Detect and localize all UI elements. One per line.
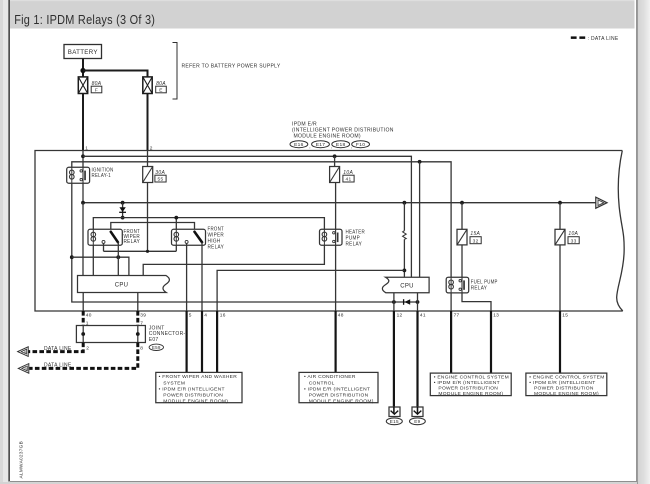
wire bus A to 10A fuse 41: [334, 156, 336, 166]
arrow output to next page: [596, 197, 607, 208]
svg-text:MODULE ENGINE ROOM): MODULE ENGINE ROOM): [438, 391, 503, 397]
svg-text:FUEL PUMP: FUEL PUMP: [471, 279, 498, 285]
svg-text:• AIR CONDITIONER: • AIR CONDITIONER: [304, 374, 356, 380]
svg-text:33: 33: [571, 238, 577, 244]
svg-text:E17: E17: [316, 142, 326, 148]
svg-text:POWER DISTRIBUTION: POWER DISTRIBUTION: [163, 392, 223, 398]
pin 5: [189, 313, 192, 319]
pin 13: [493, 313, 499, 319]
label 10A 33: [568, 231, 579, 245]
wire pin 41 ground lead: [417, 302, 419, 311]
svg-text:4: 4: [204, 313, 207, 319]
resistor R: [403, 203, 407, 278]
svg-text:HEATER: HEATER: [346, 229, 366, 235]
label 30A 55: [155, 170, 166, 183]
fusible link E (80A): [143, 77, 152, 94]
diode D2: [404, 299, 411, 305]
label 80A E: [156, 81, 167, 94]
joint connector E07: [76, 326, 145, 343]
wire battery horizontal to fuse E: [83, 71, 148, 77]
svg-text:RELAY: RELAY: [346, 242, 363, 248]
connector E17: [312, 141, 333, 150]
svg-text:MODULE ENGINE ROOM): MODULE ENGINE ROOM): [163, 398, 228, 404]
wire data line A: [29, 343, 84, 352]
wire pin 1 feed: [82, 94, 84, 151]
pin 16: [220, 313, 226, 319]
node output bus corner: [81, 201, 85, 205]
svg-text:B: B: [24, 367, 27, 371]
wire high relay contact to pin 5: [186, 243, 188, 311]
svg-text:RELAY-1: RELAY-1: [92, 173, 112, 179]
wire 10A33 to pin 15: [559, 245, 561, 311]
wire pin 12 ground lead: [393, 302, 395, 311]
svg-text:CPU: CPU: [400, 284, 414, 290]
fuse 10A 41: [330, 167, 340, 183]
svg-text:ALMWA0237GB: ALMWA0237GB: [19, 441, 24, 479]
svg-text:E: E: [159, 88, 163, 94]
svg-text:• ENGINE CONTROL SYSTEM: • ENGINE CONTROL SYSTEM: [434, 375, 509, 381]
pin 41: [420, 313, 426, 319]
wire fuel coil to pin 77: [450, 293, 452, 311]
svg-text:E59: E59: [152, 345, 161, 350]
svg-text:CONTROL: CONTROL: [309, 380, 335, 386]
wire front wiper coil to CPU: [92, 245, 94, 275]
node bus B cpu tap: [418, 160, 422, 164]
wire 77 external: [450, 311, 452, 373]
svg-text:• IPDM E/R (INTELLIGENT: • IPDM E/R (INTELLIGENT: [304, 386, 370, 392]
fuse 10A 33: [555, 229, 565, 245]
node 15A tap: [460, 201, 464, 205]
svg-text:15: 15: [562, 313, 568, 319]
fuse 15A 32: [457, 229, 467, 245]
relay HEATER PUMP RELAY: [320, 229, 343, 245]
wire 5 external: [186, 311, 188, 372]
pin 40: [86, 313, 92, 319]
wire CPU1 to pin 40: [82, 293, 84, 312]
svg-text:DATA LINE: DATA LINE: [44, 346, 72, 352]
svg-text:• IPDM E/R (INTELLIGENT: • IPDM E/R (INTELLIGENT: [434, 380, 500, 386]
CPU U1: [78, 276, 170, 293]
wire CPU2 stub right: [417, 293, 419, 302]
pin 2: [150, 146, 153, 152]
relay FUEL PUMP RELAY: [446, 277, 469, 293]
label 10A 41: [343, 170, 354, 183]
label 15A 32: [470, 231, 481, 245]
wire bus B tap to CPU2: [419, 162, 421, 277]
pin 1 joint connector: [86, 321, 89, 327]
pin 48: [338, 313, 344, 319]
title bar: [10, 0, 635, 29]
svg-text:1: 1: [86, 321, 89, 327]
diode D1: [119, 203, 126, 218]
svg-text:15A: 15A: [470, 231, 480, 237]
svg-text:PUMP: PUMP: [346, 236, 361, 242]
wire heater coil return to CPU: [143, 245, 324, 275]
wire 10A41 to heater contact: [335, 183, 337, 230]
svg-text:77: 77: [454, 313, 460, 319]
label joint connector E07: [149, 325, 186, 343]
wire ignition coil return: [72, 183, 418, 302]
node resistor tap: [403, 201, 407, 205]
wire high relay coil top branch: [175, 218, 177, 230]
wire 30A fuse feed segment: [104, 183, 177, 252]
svg-text:Fig 1: IPDM Relays (3 Of 3): Fig 1: IPDM Relays (3 Of 3): [14, 12, 155, 27]
node blade tap: [116, 255, 120, 259]
svg-text:E9: E9: [414, 419, 420, 424]
document code: [19, 441, 24, 479]
connector E59: [149, 344, 163, 350]
arrow B to data line: [18, 364, 29, 374]
svg-text:13: 13: [493, 313, 499, 319]
relay FRONT WIPER RELAY: [88, 229, 122, 245]
ground E9: [410, 407, 426, 425]
note refer to battery power supply: [173, 43, 281, 100]
wire 12 external: [393, 311, 395, 407]
svg-text:41: 41: [346, 177, 352, 183]
wire 48 external: [335, 311, 337, 372]
wire to 15A fuse: [461, 203, 463, 230]
node high relay coil tap: [174, 216, 178, 220]
ground E15: [386, 407, 402, 425]
svg-text:RELAY: RELAY: [208, 244, 225, 250]
node battery junction: [80, 68, 85, 73]
svg-text:5: 5: [189, 313, 192, 319]
svg-text:39: 39: [140, 313, 146, 319]
system box front wiper and washer: [156, 372, 242, 404]
svg-text:POWER DISTRIBUTION: POWER DISTRIBUTION: [309, 392, 369, 398]
wire high relay blade to pin 4: [201, 242, 203, 311]
battery B+: [64, 45, 102, 59]
label heater pump relay: [346, 229, 366, 247]
svg-text:RELAY: RELAY: [124, 239, 141, 245]
label front wiper high relay: [208, 227, 225, 251]
IPDM E/R enclosure box: [35, 151, 624, 312]
connector E16: [290, 141, 311, 150]
wire bus A: [83, 156, 411, 277]
wire relay blade feed line: [111, 223, 195, 232]
connector F10: [352, 141, 370, 149]
wire heater contact to pin 48: [335, 245, 337, 311]
wire front wiper blade down: [117, 242, 119, 275]
system box engine control 2: [526, 373, 607, 397]
svg-text:MODULE ENGINE ROOM): MODULE ENGINE ROOM): [534, 391, 599, 397]
pin 12: [397, 313, 403, 319]
wire data line 39 to joint connector: [136, 311, 139, 326]
svg-text:BATTERY: BATTERY: [68, 49, 98, 56]
node coil return tap: [70, 255, 74, 259]
wire resistor return to pin 16: [217, 270, 404, 311]
connector E18: [332, 141, 353, 150]
svg-text:POWER DISTRIBUTION: POWER DISTRIBUTION: [534, 385, 594, 391]
node ground bus left stub: [392, 300, 396, 304]
svg-text:10A: 10A: [568, 231, 578, 237]
pin 1: [85, 146, 88, 152]
svg-text:F: F: [95, 88, 98, 94]
svg-text:E07: E07: [149, 337, 159, 343]
node resistor return tap: [403, 269, 407, 273]
wire CPU2 stub left: [393, 293, 395, 302]
label 80A F: [91, 81, 102, 94]
wire pin1 to ignition relay contact: [82, 151, 84, 168]
svg-text:,: ,: [309, 145, 311, 150]
svg-text:41: 41: [420, 313, 426, 319]
svg-text:• IPDM E/R (INTELLIGENT: • IPDM E/R (INTELLIGENT: [159, 386, 225, 392]
svg-text:12: 12: [397, 313, 403, 319]
svg-text:CPU: CPU: [115, 282, 129, 288]
svg-text:• FRONT WIPER AND WASHER: • FRONT WIPER AND WASHER: [159, 374, 238, 380]
wire bus B (ignition relay coil feed): [72, 162, 451, 277]
wire front wiper contact to feed segment: [103, 243, 105, 251]
fuse 30A: [143, 167, 153, 183]
svg-text:32: 32: [473, 238, 479, 244]
node coil line / diode: [121, 216, 125, 220]
svg-text:MODULE ENGINE ROOM): MODULE ENGINE ROOM): [294, 133, 361, 139]
svg-text:8: 8: [140, 345, 143, 351]
wire fuel contact to pin 13: [462, 293, 491, 311]
arrow A to data line: [18, 347, 29, 357]
svg-text:POWER DISTRIBUTION: POWER DISTRIBUTION: [438, 385, 498, 391]
wire battery down: [82, 59, 84, 77]
svg-text:F10: F10: [356, 142, 365, 148]
node bus A fuse41 tap: [333, 154, 337, 158]
svg-text:DATA LINE: DATA LINE: [44, 363, 72, 369]
pin 2 joint connector: [86, 345, 89, 351]
wire CPU1 to pin 39: [137, 293, 139, 312]
fusible link F (80A): [78, 77, 87, 94]
wire 13 external: [490, 311, 492, 373]
node 10A33 tap: [558, 201, 562, 205]
pin 7 joint connector: [140, 321, 143, 327]
svg-text:16: 16: [220, 313, 226, 319]
wire ignition output to CPU: [82, 203, 84, 276]
svg-text:E18: E18: [336, 142, 346, 148]
wire 15A32 to fuel contact: [461, 245, 463, 277]
svg-text:48: 48: [338, 313, 344, 319]
wire 4 external: [201, 311, 203, 372]
wire ignition relay output bus: [83, 183, 596, 203]
pin 39: [140, 313, 146, 319]
label front wiper relay: [124, 229, 141, 245]
node diode top: [121, 201, 125, 205]
legend: data line: [571, 36, 619, 42]
wire 16 external: [216, 311, 218, 372]
wire pin2 to 30A fuse: [147, 151, 149, 167]
svg-text:SYSTEM: SYSTEM: [163, 380, 185, 386]
label ignition relay-1: [92, 167, 114, 179]
svg-text:40: 40: [86, 313, 92, 319]
svg-text:A: A: [24, 350, 27, 354]
pin 8 joint connector: [140, 345, 143, 351]
svg-text:E15: E15: [390, 419, 399, 424]
CPU U2: [382, 277, 429, 293]
label data line B: [44, 363, 72, 369]
pin 77: [454, 313, 460, 319]
wire blade junction line to CPU: [72, 257, 129, 275]
svg-text:: DATA LINE: : DATA LINE: [588, 36, 619, 42]
wire to 10A fuse 33: [559, 203, 561, 230]
wire 41 external: [416, 311, 418, 407]
svg-text:REFER TO BATTERY POWER SUPPLY: REFER TO BATTERY POWER SUPPLY: [182, 64, 281, 70]
relay IGNITION RELAY-1: [67, 167, 90, 183]
label data line A: [44, 346, 72, 352]
svg-text:RELAY: RELAY: [471, 286, 488, 292]
system box air conditioner: [299, 372, 378, 404]
svg-text:MODULE ENGINE ROOM): MODULE ENGINE ROOM): [309, 398, 374, 404]
svg-text:55: 55: [158, 177, 164, 183]
svg-text:2: 2: [86, 345, 89, 351]
IPDM E/R header text: [292, 122, 394, 140]
wire data line B: [29, 343, 138, 369]
node bus A tap: [81, 154, 85, 158]
label fuel pump relay: [471, 279, 498, 291]
pin 15: [562, 313, 568, 319]
wire data line 40 to joint connector: [82, 311, 85, 326]
node 30A feed junction: [146, 250, 149, 253]
svg-text:• IPDM E/R (INTELLIGENT: • IPDM E/R (INTELLIGENT: [529, 380, 595, 386]
wire 15 external: [559, 311, 561, 373]
wire relay coil feed line: [93, 218, 324, 230]
svg-text:7: 7: [140, 321, 143, 327]
svg-text:E16: E16: [294, 142, 304, 148]
wire pin 2 feed: [147, 94, 149, 151]
relay FRONT WIPER HIGH RELAY: [172, 229, 206, 245]
svg-text:• ENGINE CONTROL SYSTEM: • ENGINE CONTROL SYSTEM: [529, 375, 604, 381]
node ground bus right stub: [416, 300, 420, 304]
system box engine control 1: [430, 373, 511, 397]
pin 4: [204, 313, 207, 319]
